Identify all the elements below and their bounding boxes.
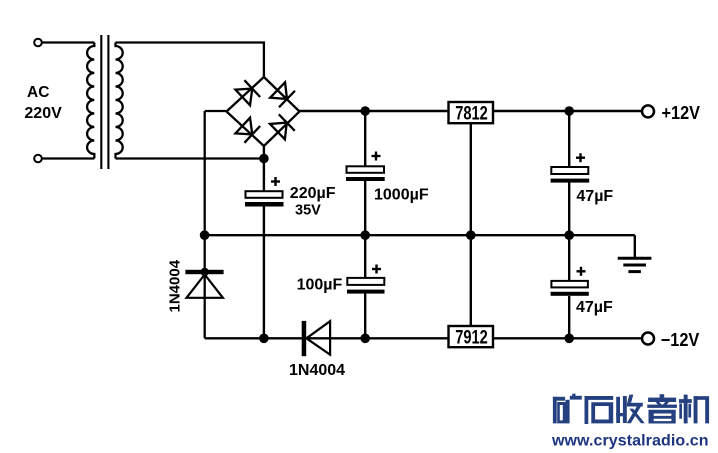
diode D5 1N4004 cathode bar <box>185 270 223 274</box>
svg-text:−12V: −12V <box>661 330 700 350</box>
junction: bottom rail / C5 <box>564 334 574 344</box>
wire: negative bottom rail right of U2 <box>493 337 642 339</box>
watermark chinese: 矿 <box>553 394 582 424</box>
bridge diode D1 (top-left) <box>235 80 260 106</box>
capacitor C1 220µF negative plate <box>245 202 284 207</box>
watermark chinese: 机 <box>679 395 709 424</box>
wire: ground middle rail <box>205 234 635 236</box>
diode D6 1N4004 cathode bar <box>302 321 307 356</box>
capacitor C4 plus sign <box>576 153 585 162</box>
capacitor C2 1000µF negative plate <box>346 177 385 181</box>
svg-text:47µF: 47µF <box>576 299 613 316</box>
capacitor C5 47µF negative plate <box>551 292 589 296</box>
junction: mid rail / left line <box>200 230 210 240</box>
wire: C4/C5 vertical line upper <box>568 111 570 167</box>
capacitor C1 220µF positive plate <box>246 191 283 198</box>
capacitor C3 plus sign <box>372 265 381 274</box>
bridge diamond wires <box>227 77 300 146</box>
transformer T1 primary winding <box>87 43 94 159</box>
wire: C1 bottom down to negative rail <box>263 205 265 338</box>
junction: bottom rail / C3 <box>360 334 370 344</box>
capacitor C1 plus sign <box>271 177 280 186</box>
svg-text:35V: 35V <box>295 203 321 219</box>
svg-text:220V: 220V <box>24 105 62 122</box>
transformer T1 core <box>100 35 102 169</box>
wire: top terminal to primary <box>42 41 94 43</box>
svg-text:220µF: 220µF <box>290 185 336 202</box>
regulator U1 7812 box <box>449 102 494 123</box>
AC input terminal bottom <box>34 155 42 163</box>
wire: C4/C5 vertical line lower <box>568 296 570 338</box>
wire: C2/C3 vertical line middle <box>364 181 366 278</box>
junction: mid rail / C2C3 <box>360 230 370 240</box>
svg-text:47µF: 47µF <box>576 188 613 205</box>
svg-text:7812: 7812 <box>455 103 488 124</box>
bridge diode D4 (bottom-right) <box>269 114 294 140</box>
wire: bridge left vertex stub <box>205 110 227 112</box>
wire: left vertical line <box>204 111 206 338</box>
wire: bottom terminal to primary <box>42 157 94 159</box>
svg-text:100µF: 100µF <box>297 276 343 293</box>
watermark chinese: 石 <box>585 396 614 424</box>
wire: U1 pin to U2 pin vertical <box>470 122 472 327</box>
output terminal +12V <box>642 105 654 117</box>
junction: mid rail / regulators <box>466 230 476 240</box>
junction: bridge bottom / secondary <box>259 154 269 164</box>
capacitor C2 1000µF positive plate <box>347 166 385 173</box>
output terminal -12V <box>642 333 654 345</box>
bridge diode D2 (top-right) <box>270 82 295 108</box>
capacitor C4 47µF negative plate <box>551 179 590 183</box>
regulator U2 7912 box <box>449 326 494 347</box>
wire: bridge bottom to C1 top <box>263 146 265 192</box>
ground symbol <box>618 258 652 271</box>
wire: positive top rail right of U1 <box>493 110 642 112</box>
capacitor C2 plus sign <box>372 152 381 161</box>
junction: mid rail / C4C5 <box>564 230 574 240</box>
svg-text:+12V: +12V <box>662 103 701 123</box>
wire: C2/C3 vertical line lower <box>364 294 366 339</box>
transformer T1 secondary winding <box>116 43 123 159</box>
wire: negative bottom rail left of U2 <box>205 337 450 339</box>
capacitor C5 47µF positive plate <box>551 281 588 288</box>
svg-text:www.crystalradio.cn: www.crystalradio.cn <box>551 433 709 450</box>
diode D5 1N4004 triangle <box>187 275 223 298</box>
junction: bottom rail / C1 <box>259 334 269 344</box>
junction: top rail / C4 <box>564 106 574 116</box>
svg-text:AC: AC <box>27 84 49 101</box>
watermark chinese: 音 <box>647 394 677 423</box>
wire: ground stem <box>634 235 636 258</box>
watermark chinese: 收 <box>616 395 645 424</box>
capacitor C5 plus sign <box>577 267 586 276</box>
wire: C4/C5 vertical line middle <box>568 183 570 282</box>
AC input terminal top <box>34 39 42 47</box>
capacitor C4 47µF positive plate <box>551 167 588 174</box>
svg-text:1N4004: 1N4004 <box>289 362 345 379</box>
wire: positive top rail left of U1 <box>300 110 450 112</box>
bridge diode D3 (bottom-left) <box>235 117 260 143</box>
diode D6 1N4004 triangle <box>306 321 330 355</box>
capacitor C3 100µF negative plate <box>347 290 385 294</box>
svg-text:7912: 7912 <box>455 327 488 348</box>
wire: secondary bottom to bridge bottom node <box>116 157 264 159</box>
wire: C2/C3 vertical line upper <box>364 111 366 167</box>
wire: secondary top to bridge top <box>116 43 264 78</box>
svg-text:1000µF: 1000µF <box>374 187 429 204</box>
junction: top rail / C2 <box>360 106 370 116</box>
capacitor C3 100µF positive plate <box>347 278 384 285</box>
junction dot on D5 bar <box>201 268 209 276</box>
svg-text:1N4004: 1N4004 <box>167 259 184 312</box>
